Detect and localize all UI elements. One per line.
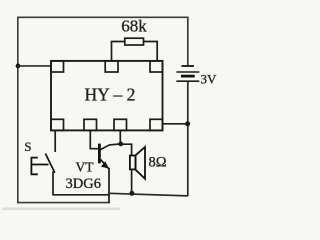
wire collector node to speaker top — [121, 144, 132, 155]
wire bottom rail — [109, 193, 188, 196]
wire emitter/junction vertical — [108, 168, 110, 203]
battery GB top short plate — [182, 65, 195, 67]
svg-text:68k: 68k — [121, 16, 147, 35]
wire IC pin B2 down to transistor base — [90, 130, 98, 148]
transistor VT collector line — [100, 144, 121, 150]
wire bottom left return (from left rail corner) — [17, 202, 109, 204]
wire IC pin B1 down to switch — [54, 130, 56, 152]
wire IC pin B3 down to collector node — [119, 130, 121, 144]
IC pin pad bottom-3 — [114, 119, 127, 130]
node dot right rail / IC pin4 — [185, 121, 190, 126]
IC pin pad bottom-2 — [84, 119, 97, 130]
wire IC pin4 to right rail — [163, 123, 189, 125]
wire switch bottom return — [53, 194, 110, 196]
battery GB long plate 1 — [176, 71, 199, 73]
wire right rail lower (battery to bottom) — [187, 81, 189, 196]
node dot bottom rail / speaker — [129, 191, 134, 196]
svg-text:S: S — [25, 140, 32, 154]
svg-text:VT: VT — [76, 160, 95, 175]
wire switch to bottom return — [52, 172, 54, 196]
wire top rail — [18, 16, 188, 18]
IC pin pad top-left — [51, 61, 64, 72]
transistor VT emitter line — [100, 159, 109, 169]
battery GB long plate 2 — [176, 80, 199, 82]
IC pin pad bottom-left — [51, 119, 64, 130]
transistor VT emitter arrowhead — [101, 161, 109, 168]
node dot collector junction — [118, 142, 123, 147]
svg-text:HY – 2: HY – 2 — [85, 85, 136, 105]
wire top-middle pin to resistor — [112, 42, 125, 61]
wire left rail to IC pin 1 — [18, 65, 52, 67]
svg-text:8Ω: 8Ω — [149, 154, 167, 170]
switch S left contact bracket — [31, 158, 48, 175]
resistor R 68k body — [125, 38, 144, 45]
svg-text:3DG6: 3DG6 — [66, 176, 101, 192]
scan smudge (faint) — [2, 208, 120, 211]
node dot on left rail — [16, 64, 21, 69]
wire right rail upper (top rail to battery) — [187, 17, 189, 66]
IC pin pad top-middle — [105, 61, 118, 72]
IC pin pad bottom-right — [150, 119, 163, 130]
switch S lever — [45, 154, 54, 173]
transistor VT base bar — [98, 144, 101, 164]
IC pin pad top-right — [150, 61, 163, 72]
svg-text:3V: 3V — [201, 71, 218, 86]
wire left rail — [17, 17, 19, 204]
speaker LS body rectangle — [130, 156, 136, 170]
battery GB short thick plate — [181, 75, 195, 78]
speaker LS cone — [136, 147, 146, 179]
IC U1 HY-2 body — [51, 61, 163, 130]
wire resistor to top-right pin — [144, 42, 158, 61]
wire speaker bottom down to rail — [131, 169, 133, 193]
